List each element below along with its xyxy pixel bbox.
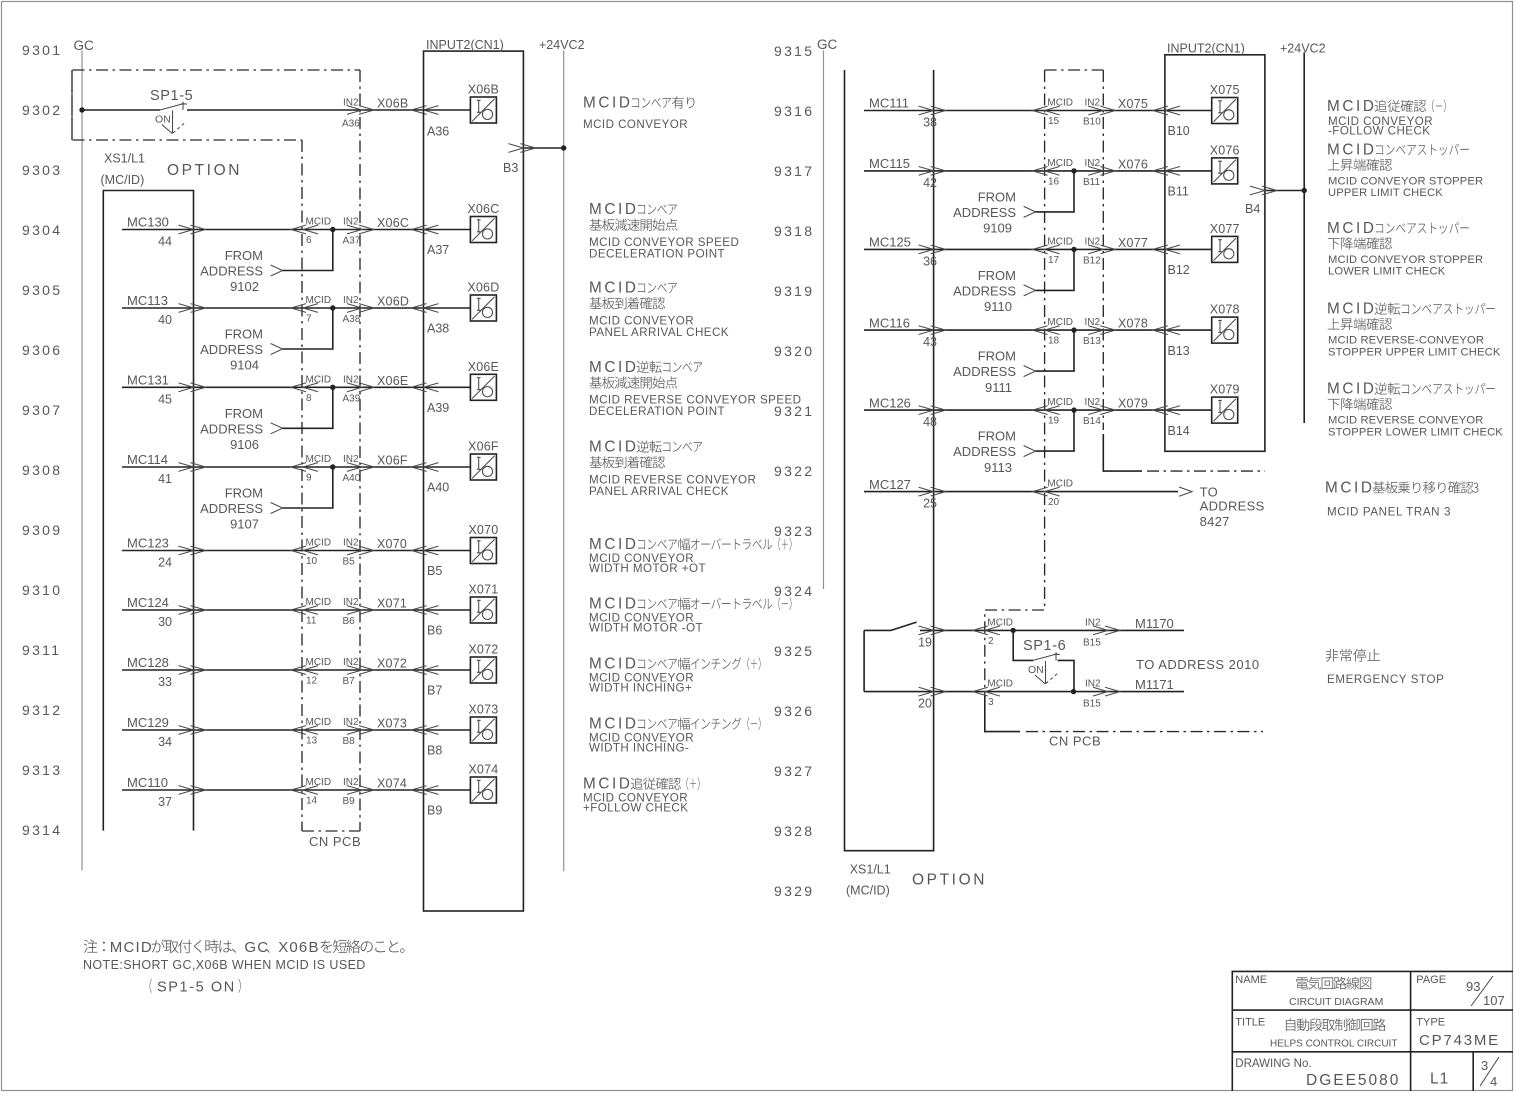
connector chevron IN2 B12	[1088, 245, 1115, 254]
wire from address 9104 to node	[283, 308, 333, 349]
svg-text:9106: 9106	[230, 437, 259, 452]
INPUT2(CN1) left box	[424, 51, 524, 911]
wire row 9302 from GC through SP1-5 to X06B	[82, 109, 160, 111]
connector chevron MCID pin 16	[1033, 167, 1060, 176]
svg-text:X06B: X06B	[278, 939, 320, 956]
svg-text:B4: B4	[1245, 202, 1260, 216]
svg-text:9110: 9110	[984, 299, 1012, 314]
switch SP1-5 blade	[160, 103, 185, 110]
svg-text:19: 19	[1048, 416, 1060, 427]
svg-text:MCID REVERSE CONVEYOR: MCID REVERSE CONVEYOR	[1328, 415, 1483, 427]
svg-text:B15: B15	[1083, 638, 1101, 649]
svg-text:XS1/L1: XS1/L1	[104, 152, 145, 166]
svg-text:MCID: MCID	[1327, 142, 1377, 159]
svg-text:19: 19	[918, 635, 932, 649]
svg-text:9: 9	[306, 473, 312, 484]
svg-text:X06F: X06F	[468, 440, 499, 454]
wire row MC110	[122, 789, 470, 791]
svg-text:NAME: NAME	[1235, 974, 1267, 986]
svg-text:FROM: FROM	[225, 406, 263, 421]
svg-text:A37: A37	[343, 236, 361, 247]
svg-text:INPUT2(CN1): INPUT2(CN1)	[426, 38, 504, 52]
svg-text:MCID CONVEYOR: MCID CONVEYOR	[583, 118, 688, 131]
svg-text:IN2: IN2	[343, 657, 359, 668]
svg-text:9326: 9326	[774, 703, 814, 719]
emergency stop loop vertical wire	[863, 630, 865, 691]
opto-isolator input X077	[1212, 236, 1238, 262]
opto-isolator input X072	[470, 657, 496, 683]
svg-text:WIDTH INCHING+: WIDTH INCHING+	[589, 682, 692, 695]
svg-text:34: 34	[158, 735, 172, 749]
svg-text:9305: 9305	[22, 282, 62, 298]
arrow out of option box (MC110)	[179, 786, 206, 795]
CN PCB right boundary top dash-dot	[1045, 69, 1104, 71]
svg-text:7: 7	[306, 314, 312, 325]
connector chevron MCID pin 18	[1033, 326, 1060, 335]
svg-text:A39: A39	[343, 393, 361, 404]
svg-text:MC130: MC130	[127, 215, 169, 230]
cross reference FROM ADDRESS 9107	[200, 486, 263, 532]
emergency stop contact blade (row 19)	[891, 622, 917, 630]
svg-text:9312: 9312	[22, 702, 62, 718]
svg-text:ADDRESS: ADDRESS	[200, 501, 263, 516]
svg-text:ON: ON	[155, 114, 171, 126]
svg-text:12: 12	[306, 676, 318, 687]
opto-isolator input X078	[1212, 317, 1238, 343]
svg-text:X06B: X06B	[377, 97, 408, 111]
svg-text:MCID REVERSE-CONVEYOR: MCID REVERSE-CONVEYOR	[1328, 335, 1484, 347]
svg-text:X078: X078	[1210, 303, 1240, 317]
svg-text:IN2: IN2	[1085, 317, 1101, 328]
box-edge chevron X071	[412, 606, 439, 615]
option box XS1/L1 left (open bottom)	[103, 191, 193, 831]
svg-text:MCID: MCID	[589, 439, 639, 456]
wire from address 9113 to node	[1036, 410, 1074, 451]
node junction dot row MC114	[330, 464, 335, 469]
node junction dot SP1-6 top	[1011, 628, 1016, 633]
svg-text:B8: B8	[343, 736, 356, 747]
wire row MC129	[122, 729, 470, 731]
svg-text:MCID: MCID	[1327, 381, 1377, 398]
svg-text:MC126: MC126	[869, 395, 911, 410]
svg-text:FROM: FROM	[978, 190, 1016, 205]
description emergency stop	[1326, 649, 1339, 662]
svg-text:FROM: FROM	[978, 268, 1016, 283]
svg-text:MCID: MCID	[306, 597, 332, 608]
svg-text:MCID: MCID	[110, 939, 153, 956]
svg-text:4: 4	[1490, 1074, 1497, 1089]
box-edge chevron X070	[412, 546, 439, 555]
svg-text:17: 17	[1048, 255, 1060, 266]
svg-text:DRAWING No.: DRAWING No.	[1235, 1058, 1311, 1070]
wire row MC115	[864, 170, 1212, 172]
svg-text:FROM: FROM	[225, 248, 263, 263]
svg-text:-FOLLOW CHECK: -FOLLOW CHECK	[1328, 125, 1430, 138]
svg-text:B3: B3	[503, 161, 518, 175]
CN PCB right boundary right vertical dash-dot	[1102, 70, 1104, 430]
svg-text:B5: B5	[343, 557, 356, 568]
svg-text:9303: 9303	[22, 162, 62, 178]
svg-text:+24VC2: +24VC2	[539, 38, 585, 52]
svg-text:B7: B7	[343, 676, 356, 687]
svg-text:NOTE:SHORT GC,X06B WHEN MCID I: NOTE:SHORT GC,X06B WHEN MCID IS USED	[83, 958, 366, 972]
svg-text:X06C: X06C	[377, 216, 409, 230]
svg-text:B13: B13	[1168, 344, 1190, 358]
svg-text:FROM: FROM	[978, 349, 1016, 364]
svg-text:ADDRESS: ADDRESS	[200, 421, 263, 436]
svg-text:107: 107	[1483, 993, 1505, 1008]
svg-text:STOPPER LOWER LIMIT CHECK: STOPPER LOWER LIMIT CHECK	[1328, 426, 1503, 438]
node junction dot row MC115	[1071, 168, 1076, 173]
svg-text:B14: B14	[1083, 416, 1101, 427]
svg-text:X06D: X06D	[377, 295, 409, 309]
svg-text:20: 20	[918, 697, 932, 711]
svg-text:3: 3	[1481, 1058, 1488, 1073]
connector chevron IN2 B5	[347, 546, 374, 555]
svg-text:MCID: MCID	[306, 217, 332, 228]
svg-text:MCID: MCID	[1047, 98, 1073, 109]
svg-text:IN2: IN2	[1085, 236, 1101, 247]
svg-text:MCID: MCID	[1327, 220, 1377, 237]
svg-text:X06F: X06F	[377, 454, 408, 468]
svg-text:LOWER LIMIT CHECK: LOWER LIMIT CHECK	[1328, 266, 1446, 278]
svg-text:MCID: MCID	[589, 536, 639, 553]
connector chevron IN2 A37	[347, 225, 374, 234]
+24VC2 right vertical wire	[1303, 53, 1305, 424]
svg-text:9311: 9311	[22, 642, 61, 658]
connector chevron MCID pin 7	[291, 304, 318, 313]
svg-text:MCID: MCID	[306, 777, 332, 788]
svg-text:GC: GC	[817, 37, 838, 52]
arrow out of option box (MC127)	[919, 487, 946, 496]
svg-text:18: 18	[1048, 336, 1060, 347]
svg-text:FROM: FROM	[225, 327, 263, 342]
wire row MC116	[864, 329, 1212, 331]
svg-text:B9: B9	[343, 796, 356, 807]
note text (SP1-5 ON)	[150, 979, 152, 993]
svg-text:MC128: MC128	[127, 655, 169, 670]
INPUT2(CN1) right box	[1165, 55, 1265, 452]
svg-text:TYPE: TYPE	[1416, 1016, 1445, 1028]
svg-text:MCID: MCID	[306, 295, 332, 306]
node junction on +24VC2 (B4)	[1302, 188, 1307, 193]
svg-text:B11: B11	[1083, 177, 1100, 188]
right margin line-number labels 9315-9329	[774, 43, 814, 899]
svg-text:9323: 9323	[774, 523, 814, 539]
svg-text:16: 16	[1048, 176, 1060, 187]
svg-text:MCID: MCID	[1327, 301, 1377, 318]
svg-text:X073: X073	[377, 717, 407, 731]
svg-text:MCID: MCID	[589, 716, 639, 733]
svg-text:UPPER LIMIT CHECK: UPPER LIMIT CHECK	[1328, 187, 1443, 199]
box-edge chevron X078	[1153, 326, 1180, 335]
svg-text:MCID: MCID	[589, 201, 639, 218]
svg-text:PAGE: PAGE	[1416, 974, 1446, 986]
arrow row 19 out of option box	[919, 626, 946, 635]
svg-text:A36: A36	[427, 124, 449, 138]
svg-text:DGEE5080: DGEE5080	[1306, 1072, 1400, 1089]
svg-text:(MC/ID): (MC/ID)	[101, 173, 145, 187]
svg-text:X077: X077	[1118, 236, 1148, 250]
svg-text:MCID: MCID	[1047, 397, 1073, 408]
svg-text:9306: 9306	[22, 342, 62, 358]
svg-text:STOPPER UPPER LIMIT CHECK: STOPPER UPPER LIMIT CHECK	[1328, 346, 1501, 358]
svg-text:IN2: IN2	[1085, 158, 1101, 169]
svg-text:9322: 9322	[774, 463, 814, 479]
node junction dot row MC125	[1071, 247, 1076, 252]
option box XS1/L1 right	[845, 70, 934, 851]
svg-text:MC131: MC131	[127, 373, 169, 388]
arrow out of option box (MC128)	[179, 666, 206, 675]
svg-text:9309: 9309	[22, 522, 62, 538]
svg-text:X06E: X06E	[468, 360, 499, 374]
opto-isolator input X074	[470, 777, 496, 803]
svg-text:ADDRESS: ADDRESS	[200, 264, 263, 279]
box-edge chevron X075	[1153, 106, 1180, 115]
svg-text:ADDRESS: ADDRESS	[953, 444, 1016, 459]
box-edge chevron X072	[412, 666, 439, 675]
svg-text:6: 6	[306, 235, 312, 246]
opto-isolator input X06D	[470, 295, 496, 321]
svg-text:B6: B6	[427, 624, 442, 638]
svg-text:PANEL ARRIVAL CHECK: PANEL ARRIVAL CHECK	[589, 326, 729, 339]
net GC (right) vertical wire	[823, 51, 825, 590]
svg-text:IN2: IN2	[343, 717, 359, 728]
arrow out of option box (MC114)	[179, 463, 206, 472]
svg-text:ADDRESS: ADDRESS	[953, 364, 1016, 379]
connector chevron IN2 row 9302	[347, 106, 374, 115]
connector chevron MCID pin 12	[291, 666, 318, 675]
svg-text:OPTION: OPTION	[167, 162, 242, 179]
node junction dot row MC126	[1071, 407, 1076, 412]
svg-text:A40: A40	[343, 473, 361, 484]
svg-text:2: 2	[988, 636, 994, 647]
node junction dot row MC131	[330, 385, 335, 390]
svg-text:9319: 9319	[774, 283, 814, 299]
svg-text:ADDRESS: ADDRESS	[1200, 499, 1265, 514]
svg-text:93: 93	[1466, 979, 1480, 994]
arrow out of option box (MC116)	[919, 326, 946, 335]
svg-text:M1171: M1171	[1135, 677, 1174, 692]
svg-text:13: 13	[306, 736, 318, 747]
svg-text:9324: 9324	[774, 583, 814, 599]
wire row pin20 (M1171)	[864, 691, 1184, 693]
svg-text:CN PCB: CN PCB	[1049, 734, 1101, 749]
svg-text:SP1-6: SP1-6	[1023, 638, 1066, 654]
svg-text:45: 45	[158, 392, 172, 406]
connector chevron IN2 B9	[347, 786, 374, 795]
wire row MC126	[864, 409, 1212, 411]
arrow out of option box (MC131)	[179, 383, 206, 392]
connector chevron MCID pin 11	[291, 606, 318, 615]
+24VC2 left vertical wire	[563, 51, 565, 872]
svg-text:B5: B5	[427, 564, 442, 578]
connector chevron IN2 B15 (M1170)	[1093, 626, 1120, 635]
svg-text:A40: A40	[427, 481, 449, 495]
svg-text:MCID: MCID	[1047, 236, 1073, 247]
svg-text:MC110: MC110	[127, 775, 168, 790]
connector chevron MCID pin 19	[1033, 406, 1060, 415]
node junction dot row MC113	[330, 305, 335, 310]
svg-text:MCID CONVEYOR STOPPER: MCID CONVEYOR STOPPER	[1328, 175, 1483, 187]
svg-text:+24VC2: +24VC2	[1280, 41, 1326, 55]
wire row MC130	[122, 229, 470, 231]
svg-text:9304: 9304	[22, 222, 62, 238]
arrow out of option box (MC123)	[179, 546, 206, 555]
svg-text:9328: 9328	[774, 823, 814, 839]
svg-text:MC123: MC123	[127, 536, 169, 551]
svg-text:9316: 9316	[774, 103, 814, 119]
net GC (left) vertical wire	[81, 51, 83, 871]
cross reference FROM ADDRESS 9111	[953, 349, 1016, 395]
wire row MC127 (to address 8427)	[864, 491, 1045, 493]
CN PCB boundary dash-dot left vertical (x=302)	[301, 140, 303, 831]
opto-isolator input X079	[1212, 397, 1238, 423]
svg-text:INPUT2(CN1): INPUT2(CN1)	[1167, 41, 1245, 55]
connector chevron IN2 B11	[1088, 167, 1115, 176]
svg-text:8427: 8427	[1200, 514, 1230, 529]
svg-text:X076: X076	[1210, 143, 1240, 157]
svg-text:SP1-5: SP1-5	[150, 88, 193, 104]
svg-text:MCID: MCID	[1047, 479, 1073, 490]
wire from address 9111 to node	[1036, 330, 1074, 371]
svg-text:MCID CONVEYOR STOPPER: MCID CONVEYOR STOPPER	[1328, 254, 1483, 266]
arrow out of option box (MC125)	[919, 245, 946, 254]
opto-isolator input X06B	[470, 97, 496, 123]
svg-text:WIDTH INCHING-: WIDTH INCHING-	[589, 742, 689, 755]
note text bottom left (Japanese)	[84, 939, 98, 953]
svg-text:MCID: MCID	[306, 538, 332, 549]
svg-text:42: 42	[923, 176, 937, 190]
svg-text:MCID: MCID	[306, 657, 332, 668]
svg-text:XS1/L1: XS1/L1	[850, 863, 891, 877]
svg-text:MC116: MC116	[869, 315, 910, 330]
svg-text:14: 14	[306, 796, 318, 807]
svg-text:MCID: MCID	[1047, 158, 1073, 169]
wire from address 9109 to node	[1036, 171, 1074, 212]
svg-text:MCID: MCID	[306, 717, 332, 728]
opto-isolator input X075	[1212, 98, 1238, 124]
opto-isolator input X073	[470, 717, 496, 743]
connector chevron IN2 B15 (M1171)	[1093, 687, 1120, 696]
box-edge chevron X06D	[412, 304, 439, 313]
svg-text:9113: 9113	[984, 460, 1012, 475]
svg-text:B15: B15	[1083, 699, 1101, 710]
svg-text:IN2: IN2	[343, 295, 359, 306]
svg-text:ADDRESS: ADDRESS	[953, 205, 1016, 220]
svg-text:IN2: IN2	[343, 777, 359, 788]
svg-text:9310: 9310	[22, 582, 62, 598]
svg-text:MC115: MC115	[869, 156, 910, 171]
connector chevron IN2 A39	[347, 383, 374, 392]
svg-text:SP1-5 ON: SP1-5 ON	[157, 980, 236, 996]
svg-text:9313: 9313	[22, 762, 62, 778]
svg-text:40: 40	[158, 313, 172, 327]
svg-text:X073: X073	[468, 703, 498, 717]
box-edge chevron X077	[1153, 245, 1180, 254]
svg-text:B8: B8	[427, 744, 442, 758]
CN PCB boundary dash-dot right vertical (x=360)	[359, 70, 361, 831]
CN PCB right boundary dash-dot left vertical	[985, 70, 1045, 695]
svg-text:X074: X074	[377, 777, 407, 791]
box-edge chevron X074	[412, 786, 439, 795]
cross reference FROM ADDRESS 9109	[953, 190, 1016, 236]
svg-text:30: 30	[158, 615, 172, 629]
svg-text:MCID: MCID	[306, 374, 332, 385]
opto-isolator input X06F	[470, 454, 496, 480]
svg-text:B11: B11	[1168, 185, 1189, 199]
svg-text:B14: B14	[1168, 424, 1190, 438]
svg-text:9111: 9111	[985, 380, 1012, 395]
svg-text:A36: A36	[342, 119, 360, 130]
svg-text:X075: X075	[1118, 97, 1148, 111]
wire row MC111	[864, 110, 1212, 112]
svg-text:PANEL ARRIVAL CHECK: PANEL ARRIVAL CHECK	[589, 485, 729, 498]
svg-text:FROM: FROM	[225, 486, 263, 501]
svg-text:43: 43	[923, 335, 937, 349]
svg-text:TO: TO	[1200, 484, 1218, 499]
connector chevron MCID pin 17	[1033, 245, 1060, 254]
svg-text:B12: B12	[1168, 263, 1190, 277]
svg-text:MCID: MCID	[987, 617, 1013, 628]
svg-text:X06E: X06E	[377, 374, 408, 388]
svg-text:10: 10	[306, 556, 318, 567]
connector chevron MCID pin 14	[291, 786, 318, 795]
opto-isolator input X076	[1212, 158, 1238, 184]
svg-text:X071: X071	[468, 583, 498, 597]
svg-text:X070: X070	[377, 537, 407, 551]
svg-text:41: 41	[158, 472, 172, 486]
svg-text:48: 48	[923, 415, 937, 429]
arrow out of option box (MC126)	[919, 406, 946, 415]
connector chevron IN2 B10	[1088, 106, 1115, 115]
svg-text:9301: 9301	[22, 42, 62, 58]
svg-text:A38: A38	[343, 314, 361, 325]
svg-text:MCID PANEL TRAN 3: MCID PANEL TRAN 3	[1327, 506, 1451, 519]
svg-text:GC: GC	[74, 38, 95, 53]
svg-text:MCID: MCID	[589, 596, 639, 613]
connector chevron MCID pin 10	[291, 546, 318, 555]
opto-isolator input X06E	[470, 374, 496, 400]
svg-text:9102: 9102	[230, 279, 259, 294]
svg-text:B9: B9	[427, 804, 442, 818]
svg-text:3: 3	[988, 697, 994, 708]
svg-text:A37: A37	[427, 243, 449, 257]
svg-text:38: 38	[923, 116, 937, 130]
CN PCB right bottom dash-dot	[985, 695, 1020, 732]
svg-text:+FOLLOW CHECK: +FOLLOW CHECK	[583, 802, 688, 815]
arrow out of option box (MC129)	[179, 726, 206, 735]
svg-text:X070: X070	[468, 523, 498, 537]
svg-text:MCID: MCID	[987, 679, 1013, 690]
svg-text:MC114: MC114	[127, 452, 168, 467]
svg-text:WIDTH MOTOR -OT: WIDTH MOTOR -OT	[589, 622, 703, 635]
svg-text:33: 33	[158, 675, 172, 689]
svg-text:M1170: M1170	[1135, 616, 1174, 631]
connector chevron IN2 B8	[347, 726, 374, 735]
cross reference FROM ADDRESS 9110	[953, 268, 1016, 314]
svg-text:MC111: MC111	[869, 96, 909, 111]
svg-text:9109: 9109	[983, 221, 1012, 236]
svg-text:DECELERATION POINT: DECELERATION POINT	[589, 247, 725, 260]
svg-text:X06C: X06C	[467, 202, 499, 216]
svg-text:IN2: IN2	[343, 454, 359, 465]
svg-text:IN2: IN2	[343, 538, 359, 549]
arrow out of option box (MC111)	[919, 106, 946, 115]
svg-text:X06B: X06B	[468, 83, 499, 97]
node junction dot row MC130	[330, 227, 335, 232]
wire row MC131	[122, 386, 470, 388]
